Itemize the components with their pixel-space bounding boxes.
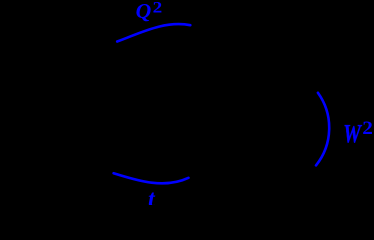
- node Q^2 label: letter Q: [136, 0, 152, 23]
- node t label: [148, 186, 156, 212]
- svg-text:Q: Q: [136, 0, 152, 23]
- wire: arc under Q2 label marking virtual photon line: [117, 24, 190, 41]
- svg-text:2: 2: [153, 0, 163, 16]
- svg-text:2: 2: [362, 118, 373, 138]
- node W^2 label: superscript 2: [362, 118, 373, 138]
- wire: right parenthesis arc marking hadronic system W2: [316, 93, 329, 166]
- node Q^2 label: superscript 2: [153, 0, 163, 16]
- svg-text:W: W: [343, 120, 362, 149]
- node W^2 label: letter W: [343, 120, 362, 149]
- wire: bottom arc marking momentum transfer t: [114, 173, 189, 183]
